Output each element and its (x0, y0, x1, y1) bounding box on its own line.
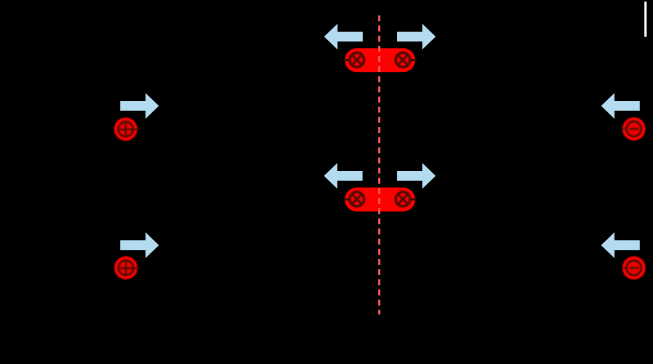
rod wire stub left A1 (343, 59, 349, 61)
current-into-page marker A2 left (350, 192, 364, 206)
text cursor (644, 2, 646, 37)
rod segment A1 (top pill) (345, 48, 415, 72)
rod wire stub left A2 (343, 198, 349, 200)
arrow lower-left (points right) (120, 232, 159, 258)
arrow mid-center-right (points right) (397, 163, 436, 189)
arrow upper-right (points left) (601, 93, 640, 119)
arrow mid-center-left (points left) (324, 163, 363, 189)
dashed symmetry axis (378, 15, 380, 314)
arrow upper-left (points right) (120, 93, 159, 119)
arrow lower-right (points left) (601, 232, 640, 258)
rod wire stub right A2 (410, 198, 416, 200)
arrow top-center-right (points right) (397, 24, 436, 50)
negative charge upper-right (622, 117, 646, 140)
negative charge lower-right (622, 256, 646, 279)
rod wire stub right A1 (410, 59, 416, 61)
positive charge lower-left (114, 256, 139, 279)
arrow top-center-left (points left) (324, 24, 363, 50)
current-into-page marker A2 right (396, 192, 410, 206)
current-into-page marker A1 left (350, 53, 364, 67)
positive charge upper-left (114, 118, 139, 141)
current-into-page marker A1 right (396, 53, 410, 67)
rod segment A2 (middle pill) (345, 188, 415, 212)
